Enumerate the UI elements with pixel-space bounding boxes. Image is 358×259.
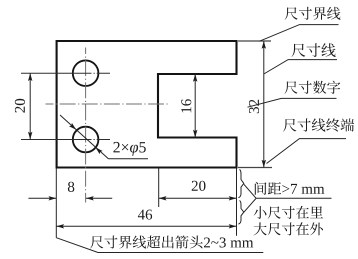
underline 间距>7 mm (256, 197, 331, 199)
arrowhead 8 (points right) (49, 196, 57, 200)
arrowhead 8 (points left) (86, 196, 94, 200)
dimension line 46 (56, 225, 236, 227)
extension line right below plate (for 20 and 46) (236, 169, 238, 236)
dimension text 20 (bottom) (192, 181, 206, 191)
plate outline (thick) (57, 41, 237, 168)
horizontal centerline hole 1 / extension for dim 20 (21, 72, 110, 74)
hole 1 (upper phi5) (73, 60, 99, 86)
dimension text 16 (181, 99, 191, 112)
leader to brace 2 (244, 198, 256, 212)
dimension text 8 (68, 182, 74, 192)
brace 2 (between the two dim lines) (238, 201, 243, 225)
label 尺寸界线 (285, 7, 341, 20)
horizontal centerline hole 2 / extension for dim 20 (21, 139, 110, 141)
dimension line 20 (bottom) (159, 197, 237, 199)
extension line left below plate (for 8 and 46) (55, 169, 57, 238)
arrowhead 16 bottom (193, 130, 197, 138)
arrowhead phi5 upper-left (69, 123, 76, 130)
arrowhead 32 bottom (262, 160, 266, 168)
dimension text 32 (249, 100, 259, 113)
arrowhead 46 right (229, 224, 237, 228)
leader line 2xphi5 diagonal (60, 115, 108, 159)
arrowhead 16 top (193, 74, 197, 82)
label 大尺寸在外 (254, 222, 323, 235)
label 间距>7 mm (255, 182, 325, 195)
leader 尺寸数字 (248, 98, 337, 107)
horizontal mid centerline of plate (46, 103, 169, 105)
extension line bottom right horizontal (for 32) (238, 167, 272, 169)
leader 尺寸界线 (260, 25, 339, 42)
arrowhead 20b right (229, 196, 237, 200)
vertical centerline through holes (85, 48, 87, 203)
leader 尺寸线 (264, 60, 337, 74)
arrowhead 20 top (28, 73, 32, 81)
leader 尺寸界线超出箭头 (56, 238, 263, 253)
hole 2 (lower phi5) (73, 127, 99, 153)
label 尺寸界线超出箭头2~3 mm (90, 236, 253, 249)
extension line notch-left below plate (for 20) (158, 169, 160, 208)
label text 2xphi5 (113, 142, 145, 156)
leader 尺寸线终端 (267, 139, 347, 164)
brace 1 (plate bottom to first dim line) (238, 169, 243, 197)
dimension line 8 left tail (28, 197, 56, 199)
label 小尺寸在里 (254, 206, 324, 219)
leader underline 2xphi5 (108, 158, 148, 160)
extension line top right (for 32) (238, 40, 271, 42)
leader to brace 1 (244, 184, 256, 198)
dimension line 8 right tail (86, 197, 112, 199)
label 尺寸数字 (285, 81, 341, 94)
arrowhead phi5 lower-right (95, 147, 102, 154)
dimension line 16 (in notch) (194, 74, 196, 138)
arrowhead 20 bottom (28, 132, 32, 140)
dimension line 20 (left vertical) (29, 73, 31, 139)
dimension text 46 (138, 210, 152, 220)
arrowhead 46 left (56, 224, 64, 228)
arrowhead 32 top (262, 41, 266, 49)
dimension text 20 (left) (15, 99, 25, 113)
label 尺寸线终端 (283, 118, 354, 131)
arrowhead 20b left (159, 196, 167, 200)
dimension line 32 (right) (263, 41, 265, 168)
label 尺寸线 (292, 43, 336, 57)
